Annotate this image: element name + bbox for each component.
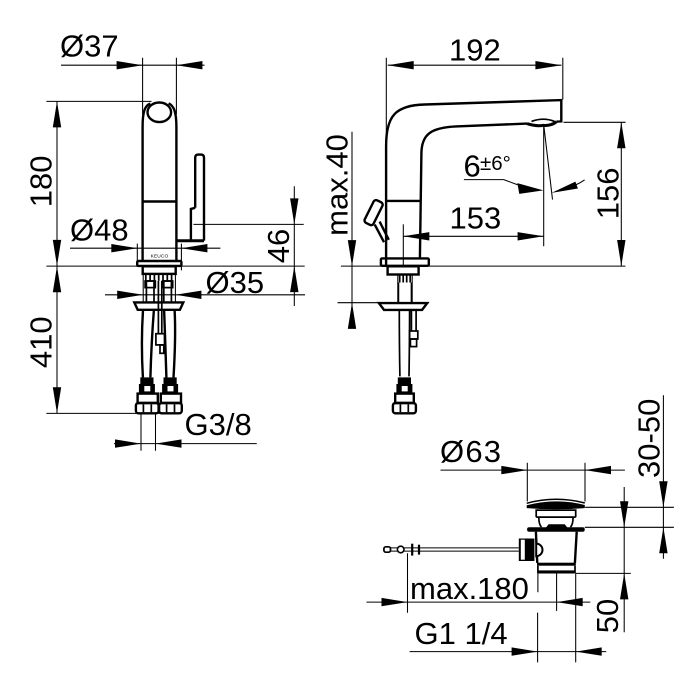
svg-text:6: 6 [464, 148, 481, 183]
body joint line [143, 200, 177, 202]
drain flange [527, 527, 585, 531]
thread band ticks (side) [400, 275, 411, 283]
svg-text:G3/8: G3/8 [185, 407, 252, 442]
mounting washer (side) [379, 303, 427, 310]
svg-text:max.40: max.40 [320, 134, 355, 236]
angle reference lines [544, 125, 553, 247]
pop-up rod [391, 548, 519, 551]
svg-text:180: 180 [24, 156, 59, 208]
right supply tube [164, 281, 172, 302]
countertop line (side) [341, 265, 626, 267]
svg-text:156: 156 [591, 168, 626, 220]
shank tube (side) [398, 283, 411, 303]
svg-text:max.180: max.180 [410, 571, 529, 606]
supply hose (side) [399, 310, 409, 377]
angle right arrow [552, 182, 578, 193]
right hose [164, 310, 175, 378]
pivot ball [536, 544, 542, 557]
drain body bottom rings [537, 563, 576, 566]
rod collars [411, 544, 413, 556]
under-counter block (side) [388, 266, 419, 274]
rosette escutcheon [134, 302, 183, 309]
drain plug seal [546, 524, 568, 527]
drain cap dome [527, 499, 585, 503]
pivot nut [519, 539, 535, 562]
tailpipe stub [537, 574, 539, 593]
svg-text:30-50: 30-50 [632, 399, 667, 478]
under-counter block [143, 266, 176, 274]
spout top ellipse [148, 103, 172, 123]
svg-text:G1 1/4: G1 1/4 [415, 616, 508, 651]
middle threaded rod [158, 281, 161, 334]
svg-text:Ø63: Ø63 [440, 434, 502, 469]
svg-text:50: 50 [590, 599, 625, 633]
hose connector (side) [398, 377, 411, 384]
svg-text:192: 192 [449, 32, 501, 67]
base flange [137, 261, 181, 266]
shank edges (O35) [143, 274, 175, 302]
drain neck [536, 509, 576, 517]
aerator [527, 122, 557, 126]
rod ball joint [397, 546, 404, 553]
lever knob (side) [364, 199, 384, 226]
svg-text:Ø48: Ø48 [70, 213, 129, 248]
right hose connector [164, 377, 177, 384]
handle lever (front) [195, 155, 204, 241]
max.40 lower extension [338, 302, 430, 304]
svg-text:410: 410 [24, 316, 59, 368]
svg-text:KEUCO: KEUCO [151, 253, 169, 259]
svg-text:46: 46 [261, 229, 296, 263]
left supply tube [146, 281, 154, 302]
body joint line (side) [386, 200, 421, 202]
rod end fitting [156, 334, 165, 345]
base flange (side) [381, 258, 429, 265]
left hose [142, 310, 154, 378]
lever stem [375, 222, 389, 243]
svg-text:Ø37: Ø37 [60, 29, 119, 64]
threaded rod (side) [411, 310, 416, 331]
rod tip knob [384, 547, 391, 552]
drain body [536, 532, 577, 563]
left hose connector [140, 377, 153, 384]
faucet outline (side) [386, 100, 561, 266]
faucet column outline [143, 103, 177, 261]
svg-text:153: 153 [450, 201, 502, 236]
countertop line (front) [46, 265, 304, 267]
thread band ticks [146, 275, 172, 281]
svg-text:±6°: ±6° [480, 152, 511, 175]
